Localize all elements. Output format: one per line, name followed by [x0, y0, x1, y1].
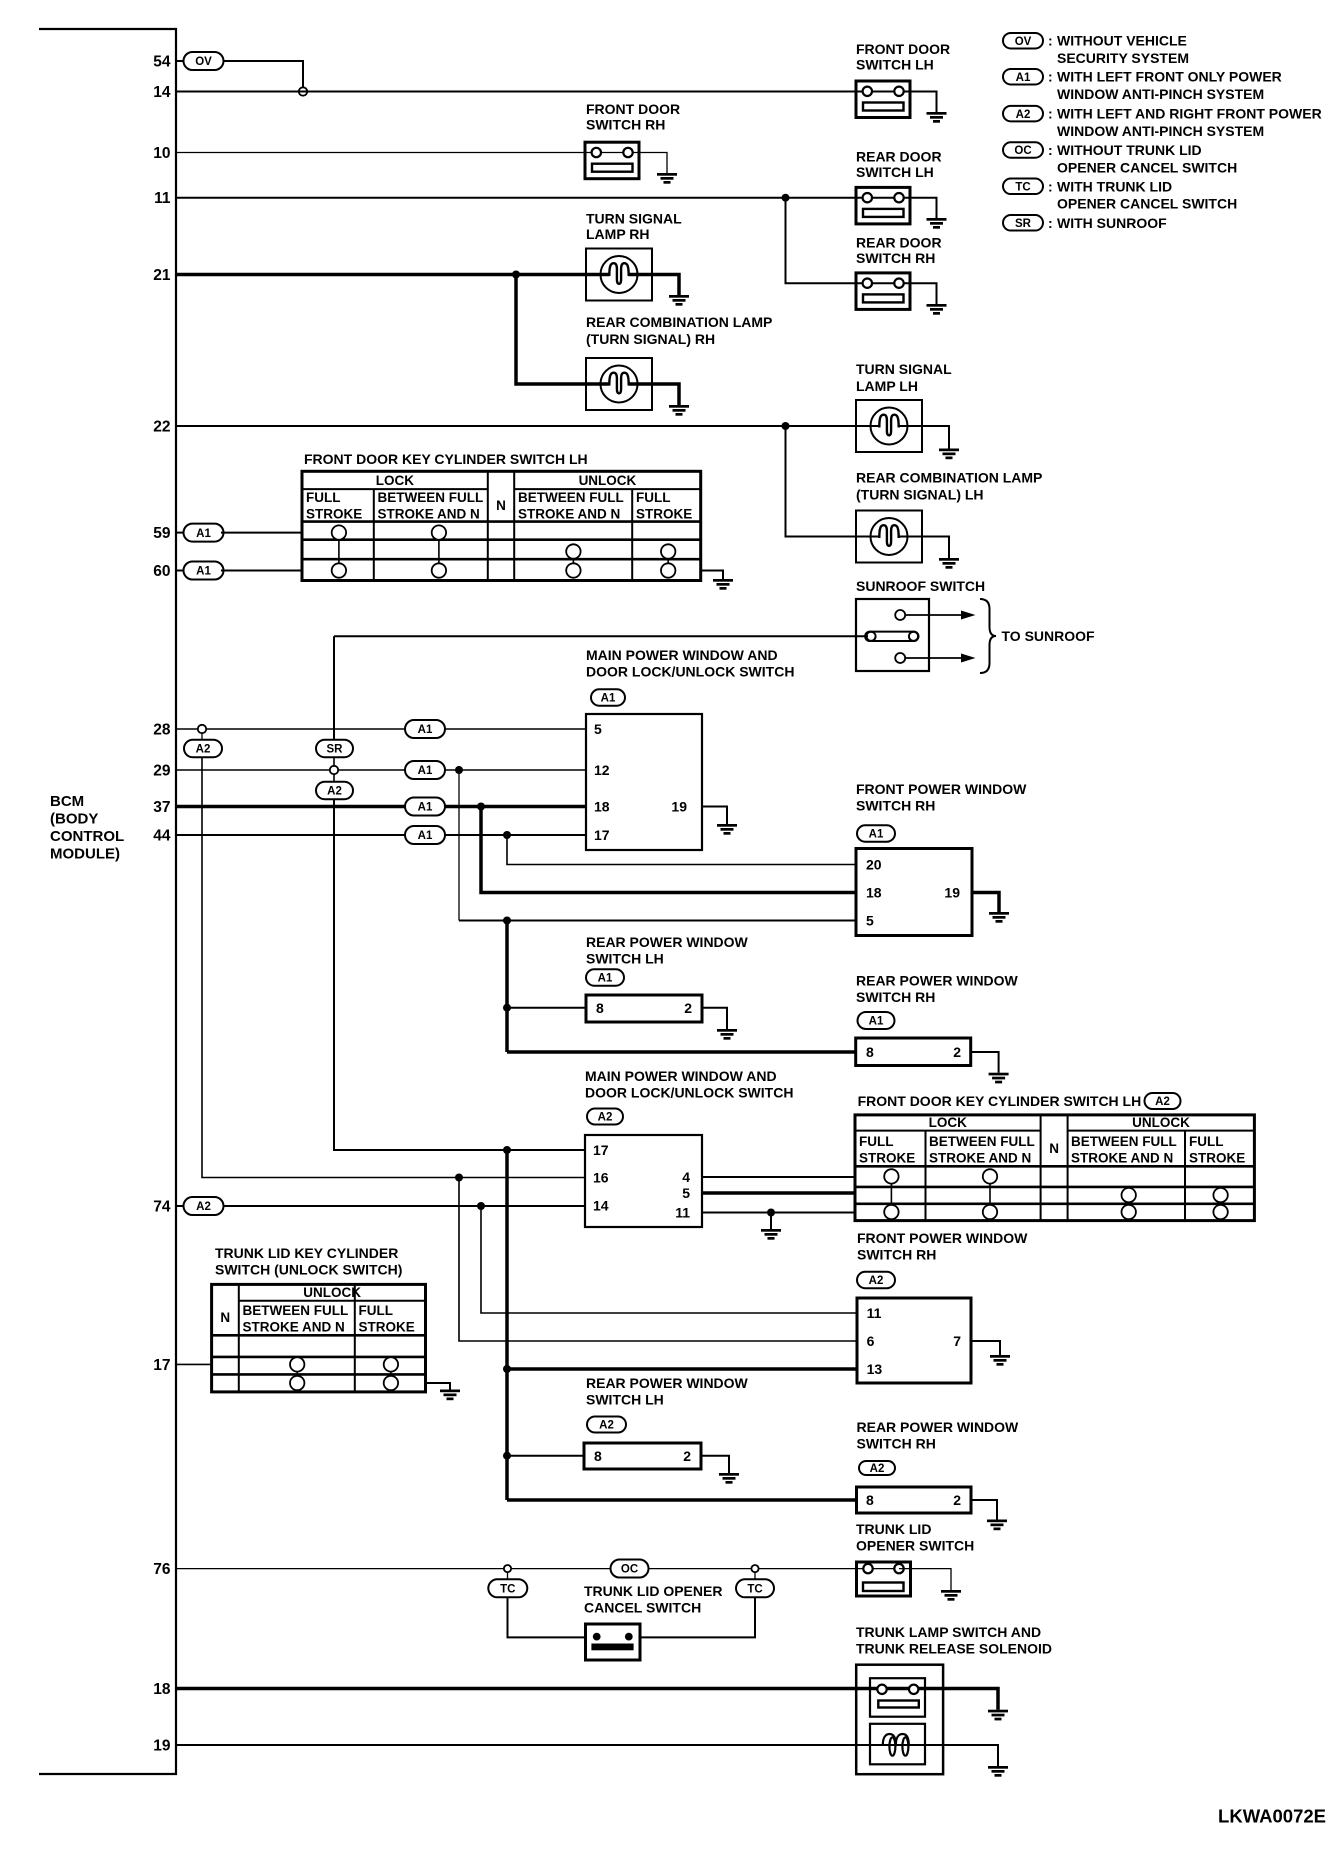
wire pin 22 to turn signal lamp LH — [176, 425, 880, 427]
svg-text:74: 74 — [153, 1199, 171, 1216]
svg-text:TO SUNROOF: TO SUNROOF — [1002, 628, 1096, 644]
ground front door switch LH — [927, 112, 947, 123]
connector option A1 on pin 28 — [405, 720, 445, 738]
option node TC left — [504, 1565, 511, 1572]
legend symbol OC — [1003, 142, 1043, 158]
svg-text:MAIN POWER WINDOW ANDDOOR LOCK: MAIN POWER WINDOW ANDDOOR LOCK/UNLOCK SW… — [586, 647, 794, 680]
front door key cylinder switch LH table — [302, 471, 701, 580]
t2 contact unlock between row3 — [1122, 1205, 1136, 1219]
contact lock full row3 — [332, 563, 346, 577]
main power window and door lock/unlock switch A2 — [585, 1135, 702, 1227]
svg-text:17: 17 — [593, 1142, 609, 1158]
wire pin 44 — [176, 834, 586, 836]
svg-text::: : — [1048, 106, 1053, 122]
front door switch LH — [856, 81, 910, 118]
svg-text:A1: A1 — [598, 973, 613, 985]
front power window switch RH A2 — [857, 1298, 971, 1383]
trunk lamp switch contact — [870, 1678, 925, 1717]
svg-text:21: 21 — [153, 267, 171, 284]
ground rear PW switch RH A2 — [987, 1520, 1007, 1531]
svg-text:18: 18 — [594, 799, 610, 815]
svg-text:17: 17 — [153, 1357, 170, 1374]
t2 contact lock full row3 — [884, 1205, 898, 1219]
svg-text:11: 11 — [867, 1305, 882, 1321]
trunk lid key cylinder switch table — [212, 1284, 426, 1392]
svg-text:5: 5 — [594, 721, 602, 737]
connector option A2 on pin 74 — [184, 1197, 224, 1215]
svg-text:A1: A1 — [196, 566, 211, 578]
svg-text:OV: OV — [1015, 36, 1032, 48]
svg-text:8: 8 — [866, 1492, 874, 1508]
ground rear door switch RH — [927, 304, 947, 315]
t3 contact full row2 — [384, 1357, 398, 1371]
ground front PW switch RH A2 — [990, 1355, 1010, 1366]
front door switch RH — [585, 142, 639, 179]
ground turn signal lamp LH — [939, 449, 959, 460]
svg-text:SR: SR — [1015, 218, 1032, 230]
svg-text:LOCK: LOCK — [376, 473, 414, 488]
sunroof switch box — [856, 599, 929, 671]
wire TC right to cancel switch — [640, 1597, 755, 1637]
wire trunk lid opener switch to ground — [899, 1569, 951, 1590]
option node pin 28 — [198, 725, 206, 733]
contact lock between row3 — [432, 563, 446, 577]
junction pin 21 branch — [512, 271, 520, 279]
table3 contact links — [297, 1369, 391, 1378]
svg-text:18: 18 — [866, 885, 882, 901]
svg-text:13: 13 — [867, 1361, 883, 1377]
svg-text:WITHOUT VEHICLESECURITY SYSTEM: WITHOUT VEHICLESECURITY SYSTEM — [1057, 33, 1189, 66]
rear door switch LH — [856, 187, 910, 224]
wire rear combination lamp RH to ground — [629, 384, 680, 405]
junction x507 on A2 feed — [503, 1146, 511, 1154]
rear combination lamp RH — [586, 358, 652, 410]
wire sunroof bottom output — [905, 657, 963, 659]
legend symbol TC — [1003, 179, 1043, 195]
svg-text:2: 2 — [953, 1492, 961, 1508]
svg-text:11: 11 — [675, 1205, 690, 1221]
option bubble A1 front PW RH — [857, 825, 895, 842]
svg-text:5: 5 — [866, 913, 874, 929]
t2 contact lock between row3 — [983, 1205, 997, 1219]
wire rear PW RH A1 to ground — [971, 1052, 999, 1073]
svg-text:LKWA0072E: LKWA0072E — [1218, 1806, 1326, 1827]
t3 contact between row3 — [290, 1376, 304, 1390]
svg-text:A1: A1 — [418, 765, 433, 777]
main power window and door lock/unlock switch A1 — [586, 714, 702, 850]
svg-text:A2: A2 — [598, 1112, 613, 1124]
wire rear PW LH A1 to ground — [702, 1008, 727, 1029]
svg-text:19: 19 — [153, 1738, 171, 1755]
t2 contact unlock full row2 — [1213, 1188, 1227, 1202]
wire pin 18 — [176, 1689, 998, 1710]
wire pin 21 to turn signal lamp RH — [176, 273, 610, 277]
contact unlock between row3 — [566, 563, 580, 577]
wire branch to rear door switch RH — [786, 198, 937, 304]
option bubble A2 main switch — [587, 1109, 623, 1125]
wire pin 60 stub — [176, 570, 186, 572]
connector option A2 below pin 28 — [184, 740, 222, 758]
svg-text:BETWEEN FULLSTROKE AND N: BETWEEN FULLSTROKE AND N — [243, 1303, 349, 1335]
wire key cylinder table to ground — [701, 571, 723, 580]
svg-text:A2: A2 — [869, 1275, 884, 1287]
svg-text:14: 14 — [153, 84, 171, 101]
wire turn signal lamp LH to ground — [899, 426, 950, 449]
svg-text:5: 5 — [682, 1185, 690, 1201]
wire to rear PW switch LH A2 pin 8 — [507, 1455, 584, 1457]
wire pin 76 — [176, 1568, 899, 1570]
svg-text:BETWEEN FULLSTROKE AND N: BETWEEN FULLSTROKE AND N — [378, 490, 484, 522]
svg-text:A1: A1 — [418, 724, 433, 736]
svg-text:11: 11 — [154, 190, 171, 207]
svg-text:18: 18 — [153, 1681, 171, 1698]
svg-text:10: 10 — [153, 145, 170, 162]
wire rear combination lamp LH to ground — [899, 537, 950, 559]
svg-text:TC: TC — [500, 1584, 515, 1596]
svg-text:A1: A1 — [869, 1016, 884, 1028]
wire TC left stub — [507, 1572, 509, 1579]
wire front PW RH A2 pin 7 to ground — [971, 1341, 1000, 1355]
t2 contact lock between row1 — [983, 1169, 997, 1183]
svg-text:60: 60 — [153, 563, 170, 580]
BCM module outline — [39, 29, 176, 1774]
wire sunroof feed — [334, 635, 868, 637]
wire A2 vertical x334 — [334, 799, 585, 1150]
ground rear combination lamp RH — [669, 405, 689, 416]
junction pin 37 branch — [477, 803, 485, 811]
svg-text:OC: OC — [621, 1564, 638, 1576]
t2 contact unlock full row3 — [1213, 1205, 1227, 1219]
wire sunroof top output — [905, 614, 963, 616]
wire pin 28 — [176, 728, 586, 730]
svg-text:A2: A2 — [196, 744, 211, 756]
svg-text:7: 7 — [953, 1333, 961, 1349]
svg-text:A1: A1 — [601, 693, 616, 705]
svg-text:N: N — [496, 498, 506, 513]
wire pin 74 — [176, 1205, 585, 1207]
wire pin 59 to key cylinder table — [221, 532, 302, 534]
wire to front PW switch RH pin 18 — [481, 807, 857, 893]
svg-text:A1: A1 — [418, 830, 433, 842]
wire to front PW switch RH pin 5 — [459, 920, 857, 922]
wire A2 drop from pin 29 — [333, 774, 335, 782]
svg-text::: : — [1048, 69, 1053, 85]
wire pin 29 branch down — [458, 770, 460, 921]
junction to rear PW LH A1 — [503, 1004, 511, 1012]
connector option OV — [184, 52, 224, 70]
svg-text:BETWEEN FULLSTROKE AND N: BETWEEN FULLSTROKE AND N — [518, 490, 624, 522]
svg-text:76: 76 — [153, 1561, 171, 1578]
wire A2 switch pin 5 to table — [702, 1191, 855, 1195]
ground trunk lid opener switch — [941, 1590, 961, 1601]
wire pin 17 to trunk table — [176, 1363, 212, 1365]
svg-text:WITH SUNROOF: WITH SUNROOF — [1057, 215, 1167, 231]
legend symbol A1 — [1003, 69, 1043, 85]
svg-text:SR: SR — [327, 744, 344, 756]
t3 contact full row3 — [384, 1376, 398, 1390]
svg-text:UNLOCK: UNLOCK — [579, 473, 637, 488]
svg-text:19: 19 — [944, 885, 960, 901]
ground front door switch RH — [657, 173, 677, 184]
svg-text:UNLOCK: UNLOCK — [303, 1285, 361, 1300]
option bubble A2 key cylinder — [1145, 1093, 1181, 1109]
svg-text:A2: A2 — [870, 1463, 885, 1475]
svg-text:A2: A2 — [1016, 109, 1031, 121]
table2 contact links — [891, 1184, 1220, 1207]
svg-text:12: 12 — [594, 762, 610, 778]
option bubble A1 rear PW RH — [858, 1012, 895, 1029]
turn signal lamp LH — [856, 400, 922, 452]
svg-text::: : — [1048, 142, 1053, 158]
t3 contact between row2 — [290, 1357, 304, 1371]
junction pin 22 branch — [782, 422, 790, 430]
arrow sunroof top — [961, 611, 976, 620]
wire A2 switch pin 11 to table — [702, 1212, 855, 1214]
svg-text:N: N — [1049, 1141, 1059, 1156]
wire A2 vertical x202 — [202, 757, 585, 1178]
svg-text:BETWEEN FULLSTROKE AND N: BETWEEN FULLSTROKE AND N — [929, 1134, 1035, 1166]
wire to rear PW switch LH A1 pin 8 — [507, 1007, 586, 1009]
connector option A2 below pin 29 — [316, 782, 353, 800]
wire TC left to cancel switch — [508, 1597, 586, 1637]
svg-text::: : — [1048, 33, 1053, 49]
wire A2 drop from pin 28 — [201, 733, 203, 740]
sunroof switch top terminal — [895, 610, 905, 620]
svg-text:29: 29 — [153, 763, 171, 780]
wire rear PW RH A2 to ground — [971, 1500, 997, 1520]
junction pin 29 branch — [455, 766, 463, 774]
ground rear combination lamp LH — [939, 558, 959, 569]
wire branch to rear combination lamp LH — [786, 426, 880, 537]
ground front door key cylinder switch LH — [713, 579, 733, 590]
svg-text:WITH LEFT FRONT ONLY POWERWIND: WITH LEFT FRONT ONLY POWERWINDOW ANTI-PI… — [1057, 69, 1282, 102]
svg-text:14: 14 — [593, 1198, 609, 1214]
front power window switch RH A1 — [856, 849, 972, 936]
junction pin 11 branch — [782, 194, 790, 202]
wire to front PW switch RH pin 20 — [507, 835, 857, 865]
rear power window switch LH A1 — [586, 995, 702, 1022]
wire turn signal lamp RH to ground — [629, 275, 680, 296]
wire pin 19 — [176, 1745, 998, 1766]
wire pin 29 — [176, 769, 586, 771]
wire branch to rear combination lamp RH — [516, 275, 610, 385]
option bubble A2 rear PW LH — [587, 1417, 626, 1433]
contact lock full row1 — [332, 525, 346, 539]
wire trunk table to ground — [426, 1383, 451, 1390]
wire pin 28 net drop to front PW RH A2 pin 6 — [459, 1178, 857, 1342]
svg-text::: : — [1048, 215, 1053, 231]
svg-text:LOCK: LOCK — [929, 1115, 967, 1130]
wire TC right stub — [754, 1572, 756, 1579]
svg-text:MAIN POWER WINDOW ANDDOOR LOCK: MAIN POWER WINDOW ANDDOOR LOCK/UNLOCK SW… — [585, 1068, 793, 1101]
svg-text:TRUNK LID KEY CYLINDERSWITCH (: TRUNK LID KEY CYLINDERSWITCH (UNLOCK SWI… — [215, 1245, 402, 1278]
ground trunk release solenoid — [988, 1766, 1008, 1777]
trunk release solenoid coil — [870, 1724, 925, 1765]
rear power window switch LH A2 — [584, 1443, 701, 1469]
option bubble A1 rear PW LH — [586, 969, 624, 986]
svg-text:8: 8 — [596, 1000, 604, 1016]
ground turn signal lamp RH — [669, 295, 689, 306]
junction to front PW RH A2 pin 13 — [503, 1365, 511, 1373]
ground trunk lamp switch — [988, 1710, 1008, 1721]
wire SR vertical x334 — [333, 636, 335, 740]
wire A2 distribution vertical — [505, 1150, 509, 1500]
svg-text:4: 4 — [682, 1169, 690, 1185]
wire pin 11 ground stub — [770, 1213, 772, 1230]
ground front PW switch RH A1 — [989, 912, 1009, 923]
svg-text:59: 59 — [153, 525, 171, 542]
arrow sunroof bottom — [961, 654, 976, 663]
svg-text:A1: A1 — [869, 829, 884, 841]
rear door switch RH — [856, 273, 910, 310]
svg-text:SUNROOF SWITCH: SUNROOF SWITCH — [856, 578, 985, 594]
connector option TC right — [736, 1579, 774, 1597]
ground rear PW switch LH A1 — [717, 1029, 737, 1040]
svg-text:8: 8 — [866, 1044, 874, 1060]
svg-text:A1: A1 — [1016, 72, 1031, 84]
connector option OC on pin 76 — [611, 1560, 649, 1578]
connector option A1 on pin 59 — [184, 524, 224, 542]
brace to sunroof — [980, 599, 996, 673]
junction pin 28 net to pin 16 — [455, 1174, 463, 1182]
wire to rear PW switch RH A2 pin 8 — [507, 1498, 857, 1502]
wire rear PW LH A2 to ground — [701, 1456, 729, 1473]
wire front PW RH A1 pin 19 to ground — [972, 893, 999, 913]
t2 contact lock full row1 — [884, 1169, 898, 1183]
svg-text:TC: TC — [747, 1584, 762, 1596]
ground trunk lid key cylinder switch — [440, 1390, 460, 1401]
svg-text:A1: A1 — [196, 528, 211, 540]
svg-text:28: 28 — [153, 722, 171, 739]
svg-text:TC: TC — [1015, 182, 1030, 194]
junction to rear PW LH A2 — [503, 1452, 511, 1460]
trunk lid opener cancel switch — [586, 1624, 641, 1660]
connector option A1 on pin 60 — [184, 562, 224, 580]
connector option TC left — [488, 1579, 527, 1597]
wire pin 11 to rear door switch LH — [176, 198, 937, 218]
svg-text:BETWEEN FULLSTROKE AND N: BETWEEN FULLSTROKE AND N — [1071, 1134, 1177, 1166]
svg-text:20: 20 — [866, 857, 882, 873]
ground rear PW switch RH A1 — [989, 1073, 1009, 1084]
wire main switch A1 pin 19 to ground — [702, 807, 727, 825]
ground rear door switch LH — [927, 218, 947, 229]
table contact links — [339, 540, 668, 564]
contact unlock between row2 — [566, 544, 580, 558]
svg-text:17: 17 — [594, 827, 610, 843]
t2 contact unlock between row2 — [1122, 1188, 1136, 1202]
svg-text:UNLOCK: UNLOCK — [1132, 1115, 1190, 1130]
wire pin 10 to front door switch RH — [176, 153, 667, 174]
wire A2 switch pin 4 to table — [702, 1176, 855, 1178]
legend symbol OV — [1003, 33, 1043, 49]
ground rear PW switch LH A2 — [719, 1473, 739, 1484]
svg-text:A2: A2 — [599, 1420, 614, 1432]
sunroof switch slot contact — [865, 632, 918, 641]
legend symbol A2 — [1003, 106, 1043, 122]
option bubble A2 front PW RH — [857, 1272, 895, 1289]
rear power window switch RH A1 — [856, 1038, 971, 1066]
option node pin 29 — [330, 766, 338, 774]
turn signal lamp RH — [586, 249, 652, 301]
ground main switch A1 — [717, 824, 737, 835]
svg-text:A1: A1 — [418, 802, 433, 814]
svg-text:2: 2 — [683, 1448, 691, 1464]
svg-text:19: 19 — [671, 799, 687, 815]
junction pin 74 branch — [477, 1202, 485, 1210]
svg-text:2: 2 — [684, 1000, 692, 1016]
contact unlock full row2 — [661, 544, 675, 558]
contact lock between row1 — [432, 525, 446, 539]
svg-text::: : — [1048, 178, 1053, 194]
svg-text:A2: A2 — [327, 786, 342, 798]
svg-text:44: 44 — [153, 828, 171, 845]
ground main switch A2 pin 11 — [761, 1229, 781, 1240]
contact unlock full row3 — [661, 563, 675, 577]
connector option A1 on pin 44 — [405, 826, 445, 844]
connector option SR above pin 29 — [316, 740, 353, 758]
junction x507 on pin5 feed — [503, 917, 511, 925]
svg-text:OV: OV — [195, 56, 212, 68]
connector option A1 on pin 29 — [405, 761, 445, 779]
junction pin 44 branch — [503, 831, 511, 839]
svg-text:22: 22 — [153, 419, 170, 436]
rear power window switch RH A2 — [857, 1487, 972, 1513]
svg-text:REAR DOORSWITCH LH: REAR DOORSWITCH LH — [856, 149, 942, 181]
wire pin 60 to key cylinder table — [221, 570, 302, 572]
legend symbol SR — [1003, 215, 1043, 231]
svg-text:16: 16 — [593, 1170, 609, 1186]
svg-text:TRUNK LAMP SWITCH ANDTRUNK REL: TRUNK LAMP SWITCH ANDTRUNK RELEASE SOLEN… — [856, 1624, 1052, 1657]
connector option A1 on pin 37 — [405, 798, 445, 816]
svg-text:OC: OC — [1014, 145, 1031, 157]
wire pin 14 to front door switch LH — [176, 92, 937, 113]
junction ground tap pin 11 — [767, 1209, 775, 1217]
svg-text:54: 54 — [153, 54, 171, 71]
option node TC right — [751, 1565, 758, 1572]
svg-text:A2: A2 — [196, 1201, 211, 1213]
wire to rear PW switch RH A1 pin 8 — [507, 1050, 857, 1054]
wire SR bubble to node — [333, 757, 335, 766]
svg-text:6: 6 — [867, 1333, 875, 1349]
wire pin 59 stub — [176, 532, 186, 534]
svg-text:8: 8 — [594, 1448, 602, 1464]
option node on pin 14 line — [299, 87, 307, 95]
wire pin 37 — [176, 805, 586, 809]
svg-text:N: N — [220, 1310, 230, 1325]
svg-text:FRONT DOOR KEY CYLINDER SWITCH: FRONT DOOR KEY CYLINDER SWITCH LH — [858, 1093, 1142, 1109]
trunk lid opener switch — [857, 1562, 911, 1596]
svg-text:FRONT DOOR KEY CYLINDER SWITCH: FRONT DOOR KEY CYLINDER SWITCH LH — [304, 451, 588, 467]
trunk lamp/solenoid outer box — [856, 1665, 943, 1775]
wire pin 54 stub — [176, 60, 186, 62]
sunroof switch bottom terminal — [895, 653, 905, 663]
front door key cylinder switch LH A2 table — [855, 1115, 1254, 1221]
wire OV to node on pin 14 — [221, 61, 303, 88]
option bubble A2 rear PW RH — [859, 1461, 895, 1475]
svg-text:2: 2 — [953, 1044, 961, 1060]
wire A1 rear switches vertical — [505, 921, 509, 1053]
svg-text:37: 37 — [153, 799, 170, 816]
wire to front PW switch RH A2 pin 13 — [507, 1367, 857, 1371]
svg-text:REAR DOORSWITCH RH: REAR DOORSWITCH RH — [856, 235, 942, 267]
wire pin 74 drop to front PW RH A2 pin 11 — [481, 1206, 857, 1313]
rear combination lamp LH — [856, 511, 922, 563]
option bubble A1 main switch — [591, 689, 625, 706]
svg-text:A2: A2 — [1155, 1096, 1170, 1108]
